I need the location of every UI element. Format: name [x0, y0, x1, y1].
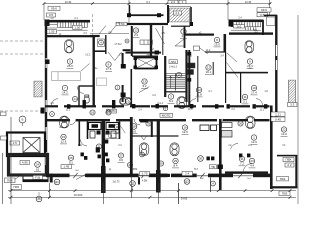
room label right mid [247, 59, 254, 69]
svg-text:ЮМ: ЮМ [133, 168, 137, 171]
external chimney hatch block [18, 81, 58, 97]
svg-text:0.45: 0.45 [275, 117, 281, 121]
svg-text:17: 17 [107, 111, 111, 115]
svg-text:31: 31 [240, 157, 244, 161]
corridor label circle [72, 96, 77, 101]
right-center vertical x225 upper [224, 34, 227, 52]
right-center vertical x225 lower [225, 52, 226, 103]
label below bold room [33, 175, 43, 179]
right margin vertical [297, 15, 299, 204]
svg-text:11: 11 [115, 125, 118, 129]
svg-text:2.4: 2.4 [134, 33, 138, 37]
svg-text:Б: Б [22, 118, 24, 122]
party wall center [130, 117, 133, 176]
svg-text:5x7: 5x7 [194, 168, 199, 171]
left apt partition wall [93, 36, 95, 107]
label box left wing [47, 30, 57, 34]
corner block right stair [229, 20, 234, 27]
door label below wall 3 [184, 179, 190, 185]
stair landing line 1 [47, 24, 58, 26]
stair treads top-left [58, 23, 88, 28]
vent stack symbol center [120, 97, 132, 105]
vent stack right wing [245, 41, 254, 54]
bath dark blob l2 [109, 124, 116, 128]
svg-text:П05: П05 [14, 185, 20, 189]
room label b8 [146, 121, 151, 126]
svg-text:12: 12 [207, 66, 211, 70]
svg-text:6.1: 6.1 [146, 0, 150, 4]
lower right outer wall [219, 119, 222, 190]
label box right annex low2 [279, 191, 290, 195]
right-center wall y34 [185, 34, 214, 36]
room label lower-right [238, 121, 243, 126]
svg-text:К: К [51, 112, 53, 116]
corner wall block top-left [45, 20, 50, 27]
svg-text:4.2M: 4.2M [142, 181, 147, 183]
hall top thin line [90, 32, 129, 34]
entrance wall end block left [127, 13, 131, 17]
tiny box above right wall [234, 24, 245, 28]
room label lower-left [62, 85, 69, 95]
svg-text:12.30: 12.30 [245, 0, 252, 4]
axis circle leader [22, 123, 24, 126]
svg-text:17.4: 17.4 [251, 91, 257, 95]
svg-text:14.6: 14.6 [188, 108, 193, 111]
room label right small [242, 94, 249, 104]
door arc 1 [52, 99, 59, 106]
bold room circle [34, 162, 41, 172]
label box b-right 1 [283, 158, 294, 162]
svg-text:18: 18 [132, 125, 136, 129]
svg-text:33: 33 [147, 122, 151, 126]
right lower corridor wall [225, 171, 268, 173]
corridor wall duct block [227, 104, 230, 108]
left wing inner top wall [45, 35, 96, 37]
witness bottom x49 [49, 183, 51, 198]
duct block left lower [121, 93, 126, 98]
svg-text:П02: П02 [280, 177, 286, 181]
door swing room5 [81, 64, 90, 72]
door diag right room a [227, 53, 237, 62]
svg-text:12.6: 12.6 [61, 140, 67, 144]
svg-text:2.2: 2.2 [287, 163, 292, 167]
top-right label box 2 [257, 13, 268, 17]
corridor wall duct block [67, 104, 70, 108]
elevator corner block NE [155, 57, 159, 61]
hall door V a [108, 52, 115, 61]
door label below wall 1 [54, 179, 60, 185]
svg-text:25: 25 [37, 197, 41, 201]
duct right wall b [188, 78, 192, 82]
room label hall [133, 28, 140, 38]
lower wall x158 below [156, 170, 161, 193]
axis circle left [19, 116, 26, 123]
svg-text:14.2: 14.2 [62, 91, 68, 95]
label box right of bold room [61, 165, 72, 169]
corridor wall duct block [264, 104, 267, 108]
left exterior wall upper [45, 20, 47, 58]
door leaf top1 [99, 26, 106, 35]
door arc 4 [256, 99, 263, 106]
svg-text:24.60: 24.60 [181, 197, 188, 201]
svg-text:1.21: 1.21 [275, 112, 281, 116]
adjacent building hatch right [265, 80, 318, 104]
top-center label box [168, 0, 178, 4]
vent stack symbol left [65, 40, 74, 54]
svg-text:4.95: 4.95 [22, 161, 28, 165]
window glass line 1 [44, 58, 46, 68]
svg-text:9.6: 9.6 [119, 158, 123, 162]
right exterior wall top [275, 15, 277, 45]
svg-text:09.6: 09.6 [51, 6, 57, 10]
room label 5 [67, 59, 74, 69]
left exterior wall lower [45, 112, 47, 121]
stairwell left wall [164, 56, 166, 97]
stair up arrow [169, 76, 172, 88]
svg-text:26: 26 [69, 156, 73, 160]
lower left partition [79, 121, 81, 146]
door arc right annex [243, 164, 252, 173]
svg-text:27: 27 [119, 154, 123, 158]
small circle below wall right [211, 181, 216, 186]
toilet room side [105, 35, 106, 54]
duct square bottom row 7 [211, 157, 214, 161]
door diag right room b [227, 63, 239, 78]
stair landing line 2 [47, 27, 58, 29]
stair tread base right 2 [231, 29, 261, 31]
stair center rail [175, 74, 177, 91]
inner partition y136 left [132, 135, 159, 136]
bottom window slash 2 [141, 173, 145, 178]
vent stack symbol lower-right [246, 116, 256, 129]
left exterior wall below corridor b [45, 140, 47, 152]
svg-text:12: 12 [134, 29, 138, 33]
bottom window slash 1 [73, 173, 77, 178]
svg-text:ЛЛ2: ЛЛ2 [170, 60, 176, 64]
bathroom group left-unit [88, 122, 120, 140]
top-center label box 2 [179, 0, 186, 4]
right wing top edge [264, 15, 277, 17]
right margin label box 2 [271, 117, 285, 121]
bath upper-left top wall [79, 85, 95, 86]
duct block core [155, 51, 160, 55]
svg-text:22: 22 [282, 128, 286, 132]
svg-text:1.55: 1.55 [49, 30, 55, 34]
witness bottom x158 [157, 183, 159, 204]
witness line axis C top [128, 0, 130, 24]
entrance inner wall [171, 26, 190, 27]
svg-text:12.1: 12.1 [66, 109, 71, 112]
svg-text:Д3: Д3 [185, 180, 189, 184]
svg-text:1.50: 1.50 [74, 25, 80, 29]
witness line axis B top dashed [92, 14, 94, 36]
window glass line 2 [44, 100, 46, 112]
corridor label box left [107, 109, 117, 113]
left exterior wall below corridor a [45, 121, 47, 128]
stair landing line 3 [47, 31, 58, 33]
svg-text:13: 13 [143, 80, 147, 84]
svg-text:пм: пм [229, 144, 232, 147]
duct square bottom row 9 [247, 154, 250, 158]
core wall above elevator [132, 56, 158, 57]
inner partition y136 right [158, 135, 178, 136]
room label right annex [249, 158, 256, 168]
bold room door diag [14, 175, 22, 181]
corridor wall duct block [83, 104, 86, 108]
corridor wall duct block [83, 100, 86, 104]
svg-text:12.6: 12.6 [251, 140, 257, 144]
witness line axis D top [227, 0, 229, 20]
right core wall [197, 56, 198, 102]
witness line axis E top [269, 0, 271, 15]
window box top-right corner [267, 17, 276, 26]
window right 2b [276, 60, 278, 70]
canopy edge line [168, 6, 191, 8]
entrance corner block [190, 22, 194, 26]
core mid wall [126, 52, 162, 54]
svg-text:12.30: 12.30 [65, 0, 72, 4]
svg-text:2.4: 2.4 [185, 172, 190, 176]
door arc 5 [70, 119, 76, 125]
window glass line 2b [46, 100, 48, 112]
axis dashed line left 3 [0, 110, 45, 112]
facade pier stub left [50, 174, 53, 183]
door arc 2 [124, 99, 131, 106]
lower wall x103 below [101, 166, 106, 193]
witness line axis A top [43, 4, 45, 21]
left exterior wall window pier 1 [45, 68, 47, 80]
label box right annex low [277, 177, 289, 181]
window label box on wall 2 [182, 171, 193, 175]
left annex X-box [23, 138, 40, 153]
door arc 7 [217, 119, 223, 125]
room label b3 [127, 162, 132, 167]
top-right label box 1 [257, 8, 271, 12]
stair label box [169, 60, 178, 64]
bed furniture [52, 72, 81, 81]
entrance right wall [190, 7, 192, 26]
hall wall segment [90, 35, 100, 37]
corridor west end blob [41, 108, 45, 114]
right room partition [240, 72, 241, 103]
stair block top wall [45, 20, 90, 23]
wardrobe [97, 78, 107, 86]
svg-text:15: 15 [62, 135, 66, 139]
duct square bottom row 6 [207, 157, 210, 161]
entrance front wall [127, 14, 164, 16]
vent stack symbol right-upper [177, 97, 187, 109]
stair tread base right [231, 26, 261, 28]
svg-text:Д1: Д1 [55, 180, 59, 184]
corridor wall duct block [156, 104, 159, 108]
stairwell right wall [185, 50, 187, 102]
svg-text:19: 19 [183, 126, 187, 130]
door arc right-lower room [231, 144, 239, 149]
corridor wall duct block [190, 104, 193, 108]
duct square bottom row 2 [84, 156, 87, 160]
mail table [140, 40, 153, 44]
svg-text:3.1: 3.1 [243, 100, 247, 104]
core top wall [127, 23, 168, 25]
left-of-core wall lower [131, 69, 133, 106]
kitchen wall stub right-center [151, 122, 153, 138]
room label center-right [205, 65, 212, 75]
window right 2 [275, 60, 277, 70]
door V center b [144, 136, 147, 141]
door arc upper-left bath [77, 86, 84, 93]
bathroom far right pair [200, 123, 232, 138]
left margin box [1, 112, 7, 116]
svg-text:20: 20 [239, 122, 243, 126]
label box on stair [73, 25, 83, 29]
cross bar right [150, 174, 170, 177]
svg-text:1.5: 1.5 [13, 141, 18, 145]
label circle below annex [36, 196, 42, 202]
svg-text:1.75: 1.75 [142, 172, 148, 176]
label box left of core [116, 22, 127, 26]
room label bottom right room [281, 127, 288, 137]
toilet room wall [94, 50, 106, 52]
elevator shaft [136, 58, 157, 69]
label bottom-left margin [5, 178, 16, 183]
svg-text:1.45: 1.45 [63, 165, 69, 169]
svg-text:П04: П04 [7, 178, 13, 182]
toilet label [99, 40, 104, 45]
svg-text:24: 24 [36, 163, 40, 167]
right margin label box 1 [271, 112, 285, 116]
door swing hall [156, 28, 165, 44]
left exterior wall below corridor c [45, 165, 47, 174]
corridor wall duct block [132, 104, 135, 108]
left margin vertical 2 [2, 153, 4, 204]
entrance side wall [167, 5, 169, 23]
corridor lower wall [45, 119, 270, 121]
svg-text:0.5: 0.5 [260, 13, 265, 17]
bottom dimension line 1 [8, 189, 296, 192]
stair tread base line [58, 27, 88, 29]
label box b-right 2 [285, 163, 294, 167]
room label right top [214, 37, 221, 47]
bottom window line 1 [70, 175, 86, 177]
stair bottom wall [165, 91, 187, 92]
axis dashed line left 1 [0, 40, 45, 42]
svg-text:1.55: 1.55 [116, 22, 121, 25]
svg-text:ПВХ: ПВХ [285, 158, 291, 162]
kitchen boxes right-center [188, 46, 200, 75]
svg-text:ф: ф [109, 168, 111, 171]
svg-text:16.1: 16.1 [206, 70, 212, 74]
partition y52 right [205, 51, 225, 52]
room label left-inner apt [114, 124, 121, 133]
bottom dimension line 2 [8, 196, 296, 199]
svg-text:2x1: 2x1 [237, 24, 242, 28]
svg-text:4.4: 4.4 [250, 164, 254, 168]
left-of-core wall [131, 26, 133, 56]
room label llq2 [90, 110, 95, 115]
room label b2b [140, 152, 145, 157]
room label center-right2 [196, 87, 203, 97]
axis dashed line left 2 [0, 53, 45, 55]
duct square bottom row 3 [98, 155, 101, 159]
entrance ramp hatch [156, 8, 201, 22]
lower right bold wall [270, 106, 273, 190]
witness bottom x103 [102, 183, 104, 204]
left exterior wall mid [45, 80, 47, 100]
room small circle x117 [115, 85, 120, 90]
right stair block top wall [229, 20, 264, 23]
stair label circle [176, 72, 181, 77]
elevator corner block SW [134, 66, 138, 70]
svg-text:ТБ: ТБ [211, 165, 215, 169]
duct square bottom row 8 [239, 154, 242, 158]
svg-text:3x1.75: 3x1.75 [113, 181, 121, 183]
kitchen counter center-left [105, 133, 119, 139]
bold room bottom-left [9, 155, 48, 176]
door leaf top2 [109, 26, 116, 35]
door diag right-center [199, 48, 208, 55]
svg-text:23: 23 [250, 159, 254, 163]
bath dark blob l1 [92, 124, 99, 128]
stair treads top-right row2 [246, 27, 256, 30]
label bottom-left margin 2 [11, 185, 22, 190]
svg-text:ЛФ: ЛФ [146, 54, 150, 57]
window glass line 1b [46, 58, 48, 68]
right exterior wall mid [275, 56, 277, 60]
duct square bottom row 1 [81, 153, 84, 157]
small box near x220 [210, 165, 217, 169]
porch below bold room [23, 175, 48, 182]
core-left duct wall upper [122, 53, 124, 68]
svg-text:П03: П03 [282, 191, 288, 195]
corridor wall duct block [112, 100, 115, 104]
core-left duct wall lower [122, 85, 124, 102]
svg-text:29: 29 [174, 159, 178, 163]
svg-text:3.3: 3.3 [290, 103, 295, 107]
room label b6 [239, 156, 246, 165]
svg-text:30: 30 [199, 157, 203, 161]
svg-text:9.2: 9.2 [142, 84, 146, 88]
duct block left [121, 64, 126, 69]
stair tread base line 2 [58, 29, 88, 31]
bottom window slash 3 [200, 173, 204, 178]
svg-text:8.6: 8.6 [132, 129, 136, 133]
stair treads [166, 74, 185, 89]
window glass line 4 [44, 152, 46, 165]
partition x213 [213, 62, 214, 75]
leader arrow left of cross [76, 175, 86, 180]
bottom window line 4 [233, 175, 253, 177]
left margin box annex [1, 136, 7, 140]
svg-text:11: 11 [243, 95, 246, 99]
right stair side wall [262, 20, 264, 35]
room label below vent [158, 161, 163, 166]
room label llq3 [106, 110, 111, 115]
room label b1 [68, 155, 75, 165]
right annex top wall [277, 155, 297, 157]
center-right wall [188, 50, 190, 106]
svg-text:1.2x: 1.2x [78, 144, 83, 147]
bath upper-left side wall [78, 86, 79, 106]
corridor wall duct block [253, 104, 256, 108]
right annex right wall [295, 155, 297, 188]
entrance wall end block right [157, 13, 161, 17]
bed pillow line [57, 72, 59, 81]
corridor circle left end [50, 112, 55, 117]
core left wall [150, 24, 152, 56]
svg-text:2x1.2: 2x1.2 [157, 102, 164, 105]
svg-text:2.4: 2.4 [171, 0, 176, 4]
left annex outer wall [7, 133, 45, 157]
